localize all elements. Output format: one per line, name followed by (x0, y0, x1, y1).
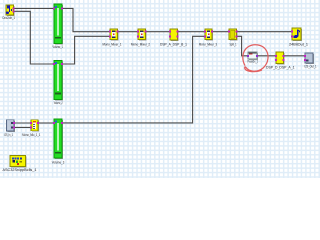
wire Peak2x_1 out to DSP_D_DSP_A_1 in1 (257, 55, 276, 57)
svg-text:DSP_A_DSP_B_1: DSP_A_DSP_B_1 (160, 43, 187, 47)
svg-text:I2S_In_1: I2S_In_1 (4, 133, 13, 137)
wire Volume_1 out to Mono_Mixer_1 in1 (62, 8, 110, 31)
svg-text:DSP_D_DSP_A_1: DSP_D_DSP_A_1 (266, 65, 295, 69)
svg-text:Mono_Mixer_2: Mono_Mixer_2 (131, 42, 150, 46)
block I2S_In_1 (4, 120, 15, 137)
wire Volume_3 out to Mono_Mixer_3 in2 (62, 36, 205, 123)
wire I2S_In_1 out1 to Mono_Mix_1_1 in1 (14, 122, 31, 124)
block Mono_Mixer_1 (103, 29, 122, 46)
wire I2S_In_1 out2 to Mono_Mix_1_1 in2 (14, 126, 31, 128)
block Dec2xIn_1 (3, 5, 16, 20)
wire Mono_Mixer_2 out to DSP_A_DSP_B_1 in1 (146, 31, 171, 33)
svg-text:Mono_Mixer_1: Mono_Mixer_1 (103, 42, 122, 46)
block Mono_Mix_1_1 (22, 120, 40, 137)
block I2S_Out_1 (304, 53, 317, 68)
block ASC32SnippBells_1 (3, 156, 37, 172)
wire Mono_Mix_1_1 out to Volume_3 in (38, 122, 53, 124)
block DSP_A_DSP_B_1 (160, 29, 187, 47)
svg-text:24BitOut_1: 24BitOut_1 (289, 42, 308, 46)
wire Split_1 out1 to 24BitOut_1 in1 (237, 31, 292, 33)
block Mono_Mixer_2 (131, 29, 150, 46)
block Split_1 (228, 29, 238, 46)
wire Dec2xIn_1 out2 to Volume_2 in (14, 11, 54, 64)
block Peak2x_1 (247, 52, 258, 64)
fader Volume_3 (52, 119, 65, 165)
wire Volume_2 out to Mono_Mixer_1 in2 (62, 36, 110, 64)
annotation red circle around Peak2x_1 (243, 45, 268, 72)
wire DSP_D_DSP_A_1 out1 to I2S_Out_1 in1 (284, 55, 305, 57)
block 24BitOut_1 (289, 28, 308, 46)
wire Dec2xIn_1 out1 to Volume_1 in (14, 7, 54, 9)
svg-text:I2S_Out_1: I2S_Out_1 (305, 64, 317, 68)
svg-text:ASC32SnippBells_1: ASC32SnippBells_1 (3, 168, 37, 172)
svg-text:Mono_Mixer_3: Mono_Mixer_3 (199, 42, 217, 46)
block DSP_D_DSP_A_1 (266, 52, 295, 69)
svg-text:Volume_1: Volume_1 (53, 45, 64, 49)
wire Mono_Mixer_3 out to Split_1 in (212, 31, 229, 33)
svg-text:Mono_Mix_1_1: Mono_Mix_1_1 (22, 133, 40, 137)
wire Split_1 out2 to Peak2x_1 in (237, 36, 248, 56)
fader Volume_2 (53, 61, 63, 106)
wire DSP_A_DSP_B_1 out1 to Mono_Mixer_3 in1 (178, 31, 206, 33)
svg-text:Peak2x_1: Peak2x_1 (248, 60, 259, 64)
block Mono_Mixer_3 (199, 29, 217, 46)
svg-text:Volume_3: Volume_3 (52, 161, 65, 165)
fader Volume_1 (53, 4, 64, 49)
svg-text:Dec2xIn_1: Dec2xIn_1 (3, 16, 16, 20)
svg-text:Volume_2: Volume_2 (54, 101, 63, 105)
wire Mono_Mixer_1 out to Mono_Mixer_2 in1 (118, 31, 139, 33)
svg-text:Split_1: Split_1 (230, 42, 237, 46)
